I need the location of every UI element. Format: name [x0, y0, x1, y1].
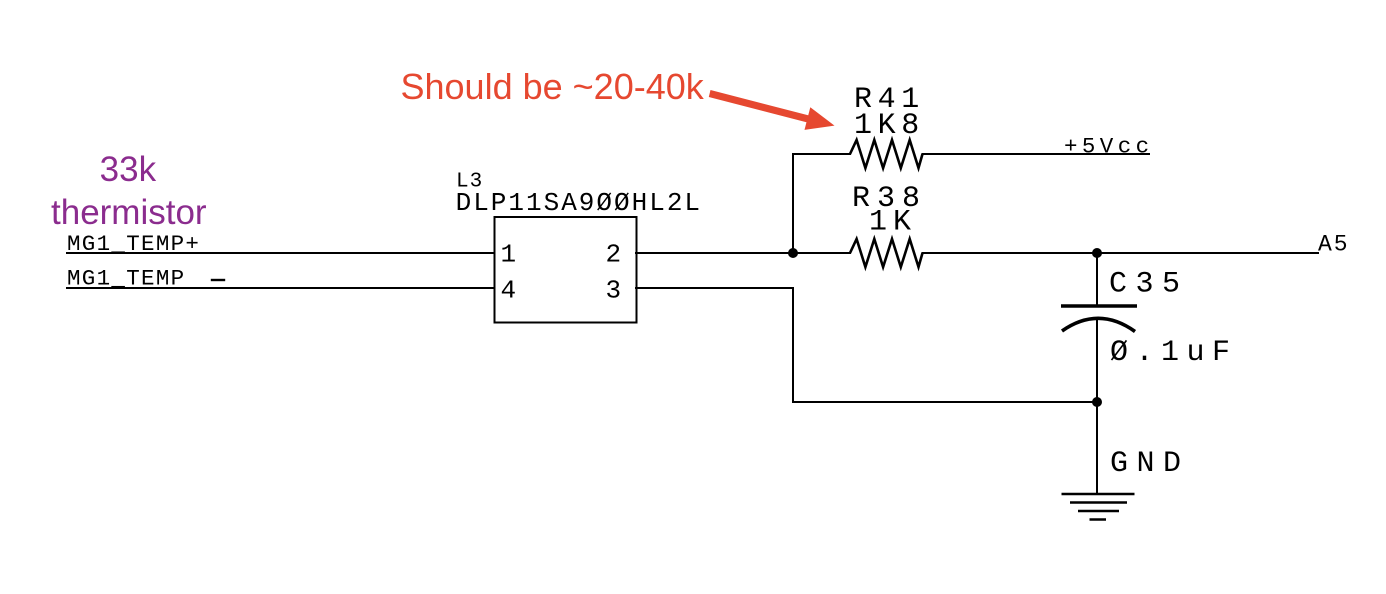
svg-text:2: 2	[606, 240, 622, 270]
svg-text:GND: GND	[1110, 447, 1190, 481]
svg-text:+5Vcc: +5Vcc	[1064, 134, 1154, 160]
svg-text:1K8: 1K8	[854, 109, 925, 143]
svg-text:Should be ~20-40k: Should be ~20-40k	[401, 66, 705, 107]
svg-text:DLP11SA9ØØHL2L: DLP11SA9ØØHL2L	[456, 188, 702, 218]
svg-text:33k: 33k	[100, 150, 157, 189]
svg-text:thermistor: thermistor	[51, 193, 207, 232]
svg-text:3: 3	[606, 276, 622, 306]
svg-text:1: 1	[501, 240, 517, 270]
svg-text:1K: 1K	[869, 206, 917, 240]
svg-text:C35: C35	[1109, 268, 1189, 302]
svg-text:MG1_TEMP: MG1_TEMP	[67, 266, 185, 292]
svg-text:4: 4	[501, 276, 517, 306]
svg-text:A5: A5	[1318, 232, 1350, 258]
svg-text:Ø.1uF: Ø.1uF	[1110, 336, 1238, 370]
svg-text:MG1_TEMP+: MG1_TEMP+	[67, 231, 200, 257]
